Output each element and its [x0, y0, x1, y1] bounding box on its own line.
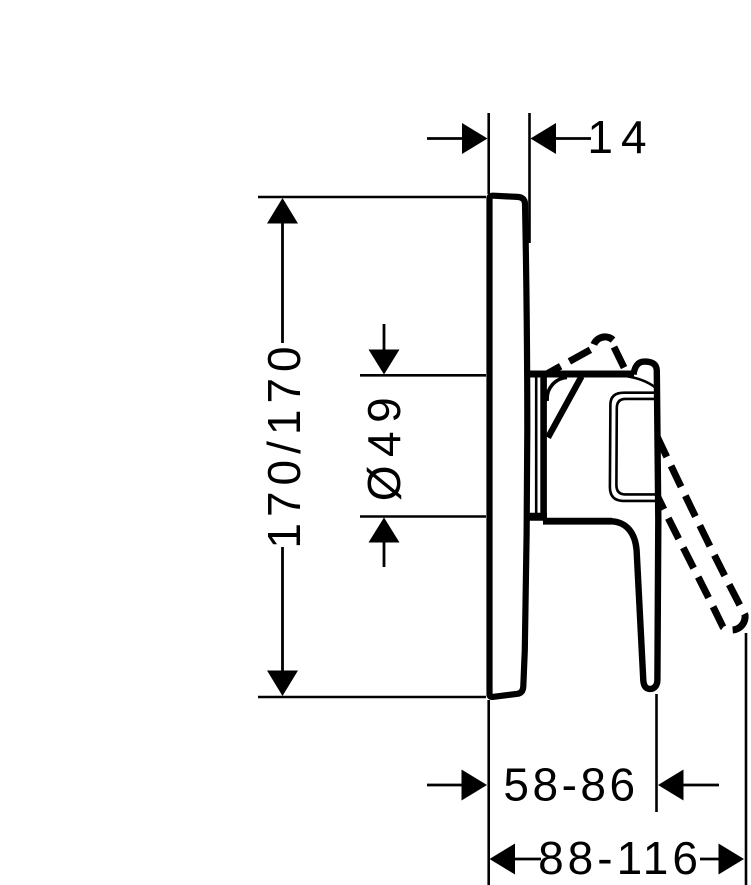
dim Ø49: upper extension line	[360, 374, 486, 377]
extension line: plate front face (14 left)	[487, 113, 490, 194]
handle base bottom edge	[543, 518, 612, 525]
svg-text:58-86: 58-86	[503, 759, 638, 811]
handle + cartridge silhouette (white fill to mask dashed lines)	[527, 362, 658, 689]
dim Ø49: upper arrow line	[383, 324, 386, 351]
dim Ø49: lower arrow line	[383, 542, 386, 567]
svg-text:Ø49: Ø49	[358, 389, 410, 501]
cartridge sleeve top bar	[526, 371, 635, 378]
dim 58-86: right arrowhead	[658, 770, 684, 801]
dim 170/170: line upper segment	[281, 222, 284, 343]
dim Ø49: upper arrowhead	[369, 350, 400, 375]
dim 58-86: left arrow line	[427, 784, 463, 787]
dim 88-116: left line	[515, 858, 541, 861]
cartridge diagonal strut	[548, 377, 582, 438]
handle outline (bump, front edge, lower lever)	[611, 362, 659, 689]
cartridge body vertical bar	[540, 374, 547, 517]
dashed open-position handle: lever back edge, tip arc, front edge	[614, 347, 745, 630]
cartridge sleeve bottom flange	[526, 513, 547, 521]
cartridge fillet arc	[547, 378, 567, 402]
dim 58-86: right arrow line	[684, 784, 720, 787]
dim 88-116: right arrowhead	[719, 844, 745, 875]
extension line: handle tip open (88-116 right)	[745, 633, 748, 885]
dim Ø49: lower extension line	[360, 515, 486, 518]
dim 170/170: line lower segment	[281, 547, 284, 672]
escutcheon plate (white fill, thick outline)	[490, 196, 528, 697]
cartridge thin vertical line	[535, 376, 538, 515]
dim 58-86: left arrowhead	[462, 770, 488, 801]
dim 14: right arrow line	[556, 137, 591, 140]
extension line: plate front (bottom dims, left)	[487, 700, 490, 885]
dim 170/170: top extension line	[258, 196, 486, 199]
grip recess inner line	[616, 399, 656, 495]
dim 88-116: left arrowhead	[490, 844, 516, 875]
grip upper contour curve	[625, 376, 657, 389]
extension line: plate back face (14 right)	[528, 113, 531, 243]
dim Ø49: lower arrowhead	[369, 518, 400, 543]
dashed open-position handle: grip top edge	[548, 337, 746, 630]
svg-text:14: 14	[587, 111, 654, 163]
dim 170/170: bottom arrowhead	[267, 671, 298, 697]
dim 170/170: top arrowhead	[267, 198, 298, 224]
svg-text:170/170: 170/170	[258, 340, 310, 548]
dim 14: left arrow line	[427, 137, 463, 140]
dim 14: right arrowhead	[531, 123, 557, 154]
dim 88-116: right line	[700, 858, 719, 861]
extension line: handle tip closed (58-86 right)	[655, 694, 658, 812]
dim 170/170: bottom extension line	[258, 696, 486, 699]
grip recess outer line	[610, 393, 657, 501]
svg-text:88-116: 88-116	[538, 832, 702, 884]
dim 14: left arrowhead	[462, 123, 488, 154]
